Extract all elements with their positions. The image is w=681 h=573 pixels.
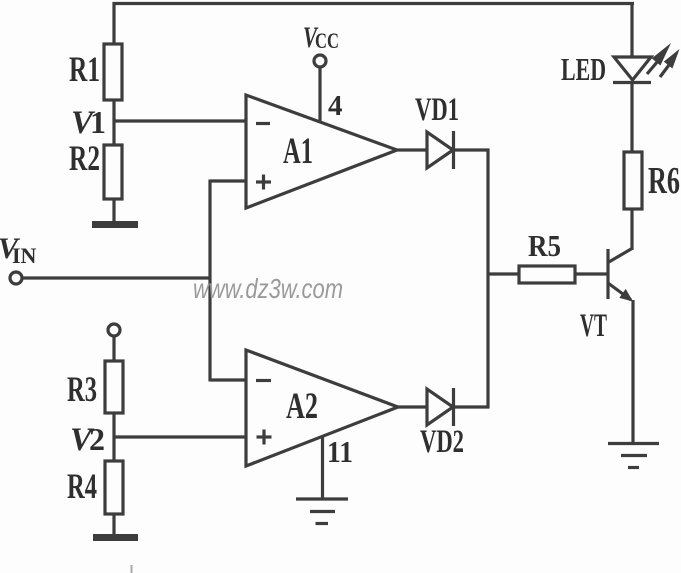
svg-text:A2: A2	[286, 386, 318, 427]
wire left rail down to R1	[112, 2, 115, 45]
terminal (reference divider input above R3)	[108, 324, 120, 336]
wire A2 pin 11 to ground	[321, 436, 324, 498]
svg-text:VD1: VD1	[415, 92, 459, 128]
svg-text:1: 1	[90, 104, 106, 140]
svg-text:R1: R1	[69, 49, 100, 89]
wire R5 to VT base	[575, 272, 607, 275]
wire summing node to R5	[488, 272, 519, 275]
input terminal VIN	[0, 232, 37, 284]
op-amp A2	[246, 350, 398, 466]
node V1	[71, 104, 106, 141]
wire R1 to V1 node	[112, 100, 115, 146]
resistor R6	[624, 152, 680, 209]
wire VIN to input node	[23, 276, 211, 279]
resistor R4	[67, 461, 123, 514]
wire to A2 inverting input	[210, 378, 246, 381]
svg-text:R4: R4	[67, 466, 97, 506]
svg-text:4: 4	[328, 90, 343, 122]
ground (A2 pin 11)	[296, 499, 348, 524]
diode VD2	[420, 388, 464, 460]
LED	[561, 43, 680, 87]
ground (below R4)	[93, 534, 138, 541]
wire V1 node to A1 inverting input	[113, 119, 247, 122]
op-amp A1	[246, 95, 397, 208]
wire input node vertical branch	[208, 180, 211, 382]
ground (below R2)	[92, 221, 138, 228]
svg-text:A1: A1	[283, 131, 313, 172]
svg-text:R6: R6	[648, 160, 680, 202]
svg-text:CC: CC	[315, 28, 339, 53]
wire A1 output to VD1 anode	[396, 148, 427, 151]
resistor R5	[519, 228, 575, 283]
wire VD2 cathode to summing node	[454, 405, 490, 408]
resistor R3	[67, 361, 123, 413]
wire VT emitter to ground	[631, 300, 634, 443]
svg-text:www.dz3w.com: www.dz3w.com	[193, 273, 343, 304]
node V2	[70, 421, 105, 458]
svg-text:R2: R2	[69, 138, 100, 178]
svg-text:VT: VT	[580, 308, 607, 344]
wire V2 node to A2 non-inverting input	[113, 435, 247, 438]
diode VD1	[415, 92, 459, 169]
wire R2 to ground	[112, 199, 115, 223]
wire R6 to LED cathode	[630, 84, 633, 152]
resistor R2	[69, 138, 122, 199]
wire terminal to R3	[112, 336, 115, 361]
wire to A1 non-inverting input	[210, 179, 246, 182]
wire summing node vertical (VD1 to VD2)	[486, 149, 489, 409]
transistor VT	[580, 249, 633, 345]
svg-text:VD2: VD2	[420, 424, 464, 460]
wire VT collector to R6	[630, 209, 633, 250]
wire top rail	[113, 2, 635, 5]
wire LED anode to top rail	[630, 2, 633, 57]
svg-text:IN: IN	[12, 243, 37, 268]
svg-text:2: 2	[89, 421, 105, 457]
scan artifact tick	[131, 565, 133, 573]
wire VD1 cathode to summing node	[454, 148, 490, 151]
svg-text:R3: R3	[67, 369, 97, 409]
svg-text:11: 11	[327, 434, 353, 469]
svg-text:R5: R5	[528, 228, 561, 263]
wire R3 to V2 node	[112, 413, 115, 461]
wire R4 to ground	[112, 514, 115, 536]
ground (VT emitter)	[608, 444, 659, 468]
resistor R1	[69, 44, 122, 100]
wire VCC terminal to A1 supply pin	[318, 67, 321, 121]
svg-text:LED: LED	[561, 51, 606, 87]
wire A2 output to VD2 anode	[397, 405, 427, 408]
power terminal VCC	[303, 21, 339, 67]
